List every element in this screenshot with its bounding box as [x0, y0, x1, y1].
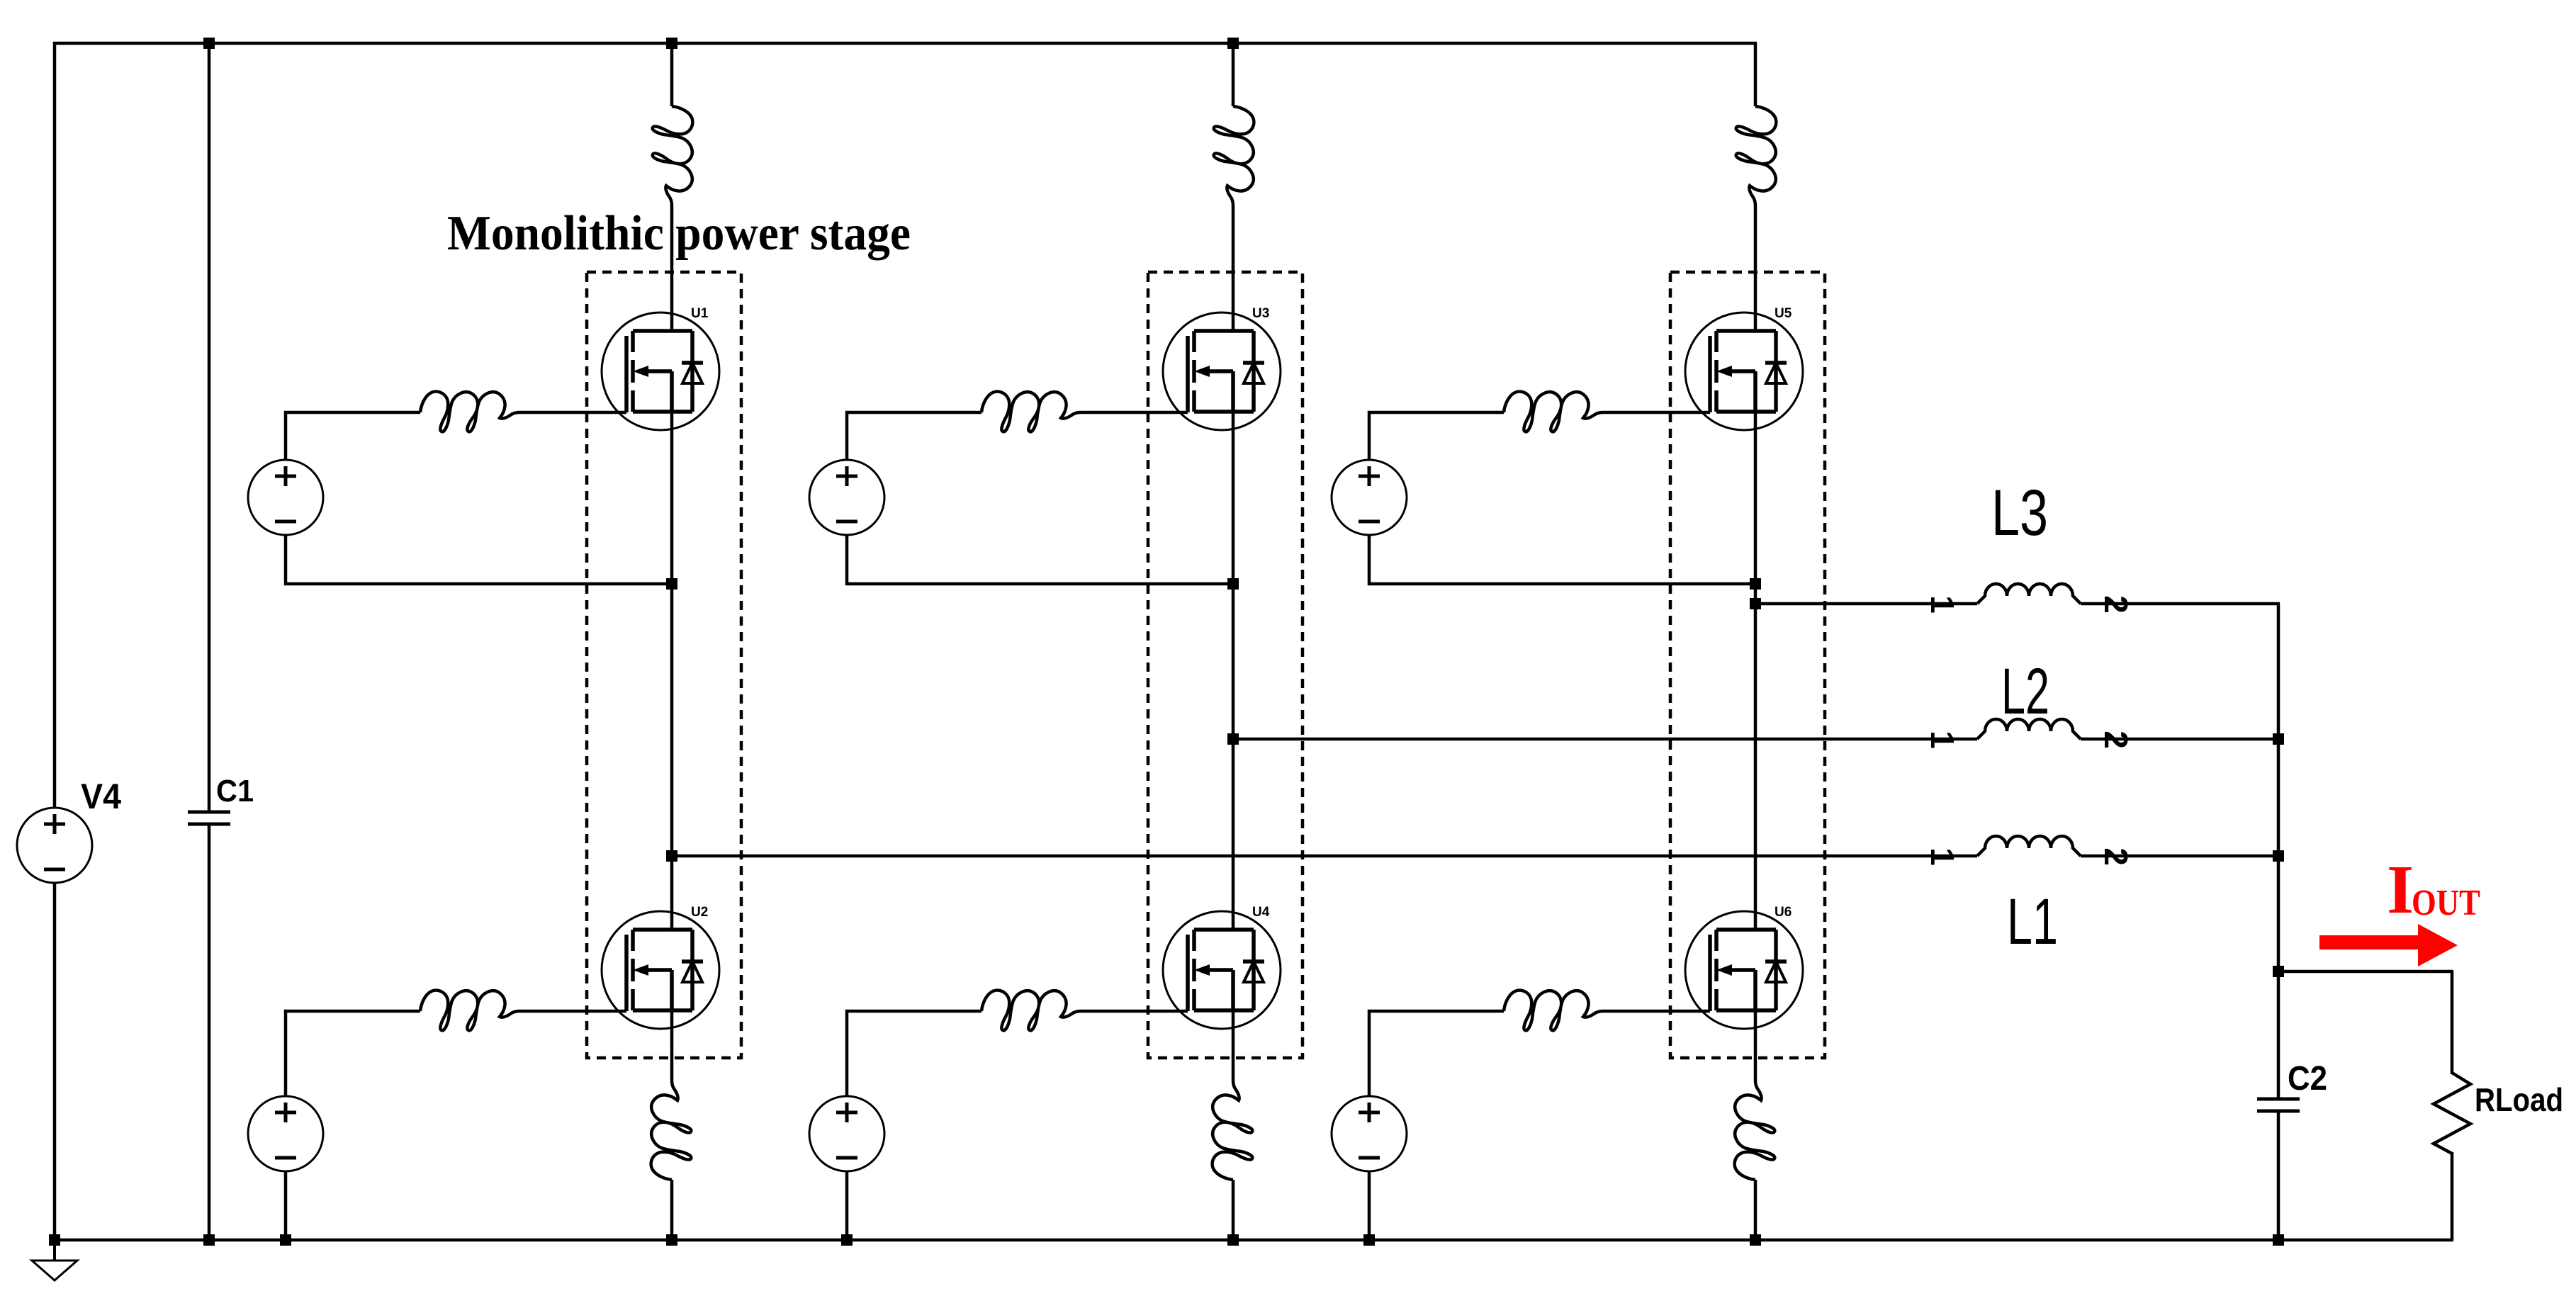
- wire: gate coil to high-side gate, phase 3: [1603, 411, 1710, 415]
- inductor: gate loop, phase 2 low side: [982, 991, 1081, 1031]
- inductor: gate loop, phase 2 high side: [982, 392, 1081, 432]
- wire: phase 3 bottom coil to ground rail: [1754, 1180, 1757, 1240]
- resistor RLoad: [2434, 1073, 2470, 1154]
- wire: RLoad bottom lead: [2451, 1152, 2454, 1240]
- wire: phase 1 bottom coil to ground rail: [670, 1180, 674, 1240]
- inductor L_bottom phase 2: [1213, 1081, 1253, 1180]
- inductor L2: [1977, 719, 2081, 739]
- node: phase 3 output tap junction: [1750, 598, 1761, 609]
- svg-text:C1: C1: [216, 774, 254, 808]
- wire: C1 to bottom rail: [208, 825, 211, 1240]
- node: phase 2 output tap junction: [1227, 733, 1239, 745]
- node: C1 ground junction: [203, 1234, 215, 1246]
- wire: driver return to ground, phase 1 low side: [284, 1171, 288, 1240]
- dashed box: monolithic power stage phase 1: [587, 272, 741, 1058]
- voltage source: low-side gate driver phase 2: [809, 1096, 884, 1171]
- svg-text:L1: L1: [2007, 886, 2058, 958]
- inductor L_top phase 1: [653, 106, 693, 205]
- wire: L2 to output bus: [2081, 738, 2280, 741]
- inductor L1: [1977, 836, 2081, 856]
- transistor U3 (high-side MOSFET, phase 2): [1163, 312, 1281, 430]
- wire: driver plus to gate coil, phase 3 low side: [1369, 1011, 1504, 1096]
- transistor U5 (high-side MOSFET, phase 3): [1685, 312, 1803, 430]
- wire: phase 2 coil to high-side drain: [1232, 205, 1235, 331]
- inductor: gate loop, phase 3 low side: [1504, 991, 1603, 1031]
- voltage source V4: [17, 808, 92, 883]
- node: phase 1 high-side source junction: [666, 578, 677, 590]
- inductor L_top phase 2: [1214, 106, 1254, 205]
- svg-text:V4: V4: [81, 777, 121, 816]
- arrow: output current direction (red): [2319, 924, 2458, 966]
- node: V4 ground junction: [49, 1234, 60, 1246]
- node: output node junction: [2273, 966, 2284, 977]
- node: phase 3 high-side source junction: [1750, 578, 1761, 590]
- wire: driver return to source node, phase 1 high side: [286, 535, 672, 584]
- wire: phase 2 switch node (high-side source to low-side drain): [1232, 412, 1235, 930]
- inductor L_bottom phase 1: [651, 1081, 692, 1180]
- inductor: gate loop, phase 1 low side: [420, 991, 519, 1031]
- svg-text:RLoad: RLoad: [2475, 1081, 2563, 1118]
- transistor U1 (high-side MOSFET, phase 1): [602, 312, 719, 430]
- ground symbol: [32, 1240, 77, 1280]
- svg-text:U2: U2: [691, 905, 708, 920]
- wire: driver plus to gate coil, phase 3 high side: [1369, 412, 1504, 460]
- node: phase 2 high-side source junction: [1227, 578, 1239, 590]
- wire: phase 2 drain feed upper: [1232, 43, 1235, 106]
- svg-text:I: I: [2387, 852, 2414, 928]
- node: phase 1 ground junction: [666, 1234, 677, 1246]
- node: phase 1 top rail tap: [666, 38, 677, 49]
- svg-text:U1: U1: [691, 306, 709, 321]
- wire: phase 1 drain feed upper: [670, 43, 674, 106]
- svg-text:OUT: OUT: [2412, 883, 2480, 923]
- inductor: gate loop, phase 3 high side: [1504, 392, 1603, 432]
- dashed box: monolithic power stage phase 2: [1148, 272, 1303, 1058]
- wire: left supply drop to V4: [53, 42, 57, 808]
- svg-text:U6: U6: [1774, 905, 1792, 920]
- inductor L3: [1977, 584, 2081, 604]
- wire: driver return to ground, phase 3 low side: [1368, 1171, 1371, 1240]
- node: C2 ground junction: [2273, 1234, 2284, 1246]
- transistor U4 (low-side MOSFET, phase 2): [1163, 911, 1281, 1029]
- capacitor C2: [2257, 1099, 2300, 1111]
- wire: RLoad top lead: [2451, 971, 2454, 1074]
- wire: C2 to bottom rail: [2277, 1112, 2280, 1240]
- svg-text:1: 1: [1924, 731, 1961, 749]
- wire: gate coil to high-side gate, phase 2: [1081, 411, 1188, 415]
- svg-text:U3: U3: [1252, 306, 1269, 321]
- wire: phase 3 output line to coupled inductor L3: [1755, 602, 1977, 606]
- node: phase 3 low-side driver ground junction: [1363, 1234, 1375, 1246]
- node: phase 2 low-side driver ground junction: [841, 1234, 853, 1246]
- wire: driver plus to gate coil, phase 2 high side: [847, 412, 982, 460]
- wire: bottom ground rail: [53, 1239, 2453, 1242]
- wire: right output bus: [2277, 604, 2280, 1098]
- wire: driver plus to gate coil, phase 1 high side: [286, 412, 420, 460]
- wire: gate coil to low-side gate, phase 2: [1081, 1010, 1188, 1013]
- wire: top supply rail: [53, 42, 1757, 45]
- node: phase 2 top rail tap: [1227, 38, 1239, 49]
- wire: phase 3 switch node (high-side source to low-side drain): [1754, 412, 1757, 930]
- wire: phase 2 bottom coil to ground rail: [1232, 1180, 1235, 1240]
- inductor L_bottom phase 3: [1735, 1081, 1775, 1180]
- wire: C1 branch from top rail: [208, 43, 211, 811]
- wire: phase 2 low-side source to bottom coil: [1232, 1010, 1235, 1081]
- wire: driver plus to gate coil, phase 1 low side: [286, 1011, 420, 1096]
- wire: phase 1 low-side source to bottom coil: [670, 1010, 674, 1081]
- wire: driver plus to gate coil, phase 2 low side: [847, 1011, 982, 1096]
- wire: L3 to output bus: [2081, 602, 2280, 606]
- voltage source: high-side gate driver phase 3: [1332, 460, 1407, 535]
- transistor U2 (low-side MOSFET, phase 1): [602, 911, 719, 1029]
- wire: gate coil to high-side gate, phase 1: [519, 411, 626, 415]
- node: phase 1 output tap junction: [666, 850, 677, 862]
- svg-text:1: 1: [1924, 595, 1961, 614]
- wire: driver return to ground, phase 2 low side: [845, 1171, 849, 1240]
- svg-text:C2: C2: [2288, 1060, 2327, 1098]
- dashed box: monolithic power stage phase 3: [1670, 272, 1825, 1058]
- svg-text:Monolithic power stage: Monolithic power stage: [447, 206, 911, 261]
- wire: phase 2 output line to coupled inductor L2: [1233, 738, 1977, 741]
- wire: driver return to source node, phase 3 high side: [1369, 535, 1755, 584]
- node: C1 top rail junction: [203, 38, 215, 49]
- wire: phase 1 coil to high-side drain: [670, 205, 674, 331]
- wire: phase 3 coil to high-side drain: [1754, 205, 1757, 331]
- capacitor C1: [188, 812, 230, 824]
- wire: driver return to source node, phase 2 high side: [847, 535, 1233, 584]
- svg-text:U5: U5: [1774, 306, 1792, 321]
- inductor L_top phase 3: [1736, 106, 1777, 205]
- wire: gate coil to low-side gate, phase 1: [519, 1010, 626, 1013]
- svg-text:L2: L2: [2001, 655, 2049, 728]
- node: phase 2 ground junction: [1227, 1234, 1239, 1246]
- node: bus junction with L1: [2273, 850, 2284, 862]
- svg-text:L3: L3: [1991, 477, 2048, 549]
- voltage source: low-side gate driver phase 1: [248, 1096, 323, 1171]
- voltage source: high-side gate driver phase 2: [809, 460, 884, 535]
- wire: gate coil to low-side gate, phase 3: [1603, 1010, 1710, 1013]
- node: phase 3 ground junction: [1750, 1234, 1761, 1246]
- voltage source: low-side gate driver phase 3: [1332, 1096, 1407, 1171]
- node: phase 1 low-side driver ground junction: [280, 1234, 291, 1246]
- voltage source: high-side gate driver phase 1: [248, 460, 323, 535]
- wire: output node to RLoad: [2278, 970, 2453, 974]
- svg-text:U4: U4: [1252, 905, 1270, 920]
- wire: phase 3 drain feed upper: [1754, 43, 1757, 106]
- wire: L1 to output bus: [2081, 855, 2280, 858]
- wire: V4 minus to ground rail: [53, 883, 57, 1240]
- wire: phase 1 switch node (high-side source to low-side drain): [670, 412, 674, 930]
- wire: phase 1 output line to coupled inductor L1: [672, 855, 1977, 858]
- wire: phase 3 low-side source to bottom coil: [1754, 1010, 1757, 1081]
- node: bus junction with L2: [2273, 733, 2284, 745]
- transistor U6 (low-side MOSFET, phase 3): [1685, 911, 1803, 1029]
- svg-text:1: 1: [1924, 847, 1961, 866]
- inductor: gate loop, phase 1 high side: [420, 392, 519, 432]
